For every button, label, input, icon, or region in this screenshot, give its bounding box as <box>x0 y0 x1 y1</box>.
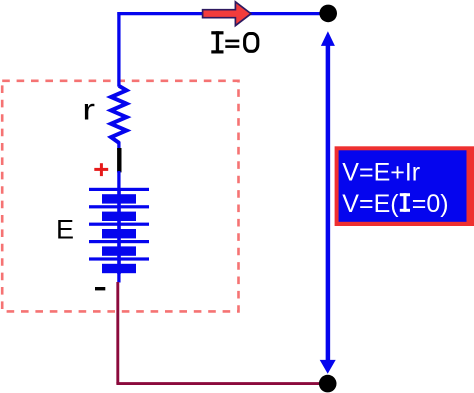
label + (plus terminal) <box>94 163 108 176</box>
voltage double arrow (shaft) <box>326 43 331 362</box>
plate short 5 <box>102 264 136 273</box>
label - (minus terminal) <box>95 287 105 290</box>
0 glyph <box>245 34 258 52</box>
svg-text:V=E+Ir: V=E+Ir <box>342 158 420 186</box>
= glyph <box>225 40 239 43</box>
wire bottom horizontal (dark red) <box>116 382 328 385</box>
plate long 4 <box>89 240 149 243</box>
wire top vertical <box>117 12 120 87</box>
plate long 2 <box>89 205 149 208</box>
svg-text:r: r <box>82 93 95 126</box>
battery center connector <box>117 188 121 274</box>
wire bottom vertical (dark red) <box>116 282 119 384</box>
plate short 1 <box>102 194 136 203</box>
svg-text:E: E <box>56 215 74 245</box>
plate long 1 <box>89 188 149 191</box>
label I=0 <box>211 31 258 53</box>
plate short 4 <box>102 246 136 255</box>
wire to battery top <box>117 171 120 189</box>
battery internal dashed box <box>2 81 238 312</box>
wire top horizontal <box>117 12 328 15</box>
node bottom (black dot) <box>319 375 337 393</box>
svg-text:V=E(: V=E( <box>342 190 399 218</box>
wire battery bottom stub (blue) <box>117 272 120 283</box>
plate long 3 <box>89 223 149 226</box>
voltage arrow head bottom <box>320 360 336 374</box>
wire black segment <box>117 148 121 172</box>
plate short 2 <box>102 212 136 221</box>
wire below resistor (blue stub) <box>117 142 120 151</box>
current direction arrow <box>203 2 251 26</box>
svg-text:=0): =0) <box>412 190 449 218</box>
plate short 3 <box>102 229 136 238</box>
formula box <box>335 146 474 226</box>
battery E <box>89 188 149 274</box>
plate long 5 <box>89 257 149 260</box>
resistor r <box>111 86 127 143</box>
formula line 2: V=E(I=0) <box>342 190 448 218</box>
voltage arrow head top <box>321 31 335 46</box>
node top (black dot) <box>319 5 337 23</box>
I glyph with serifs <box>216 31 219 53</box>
